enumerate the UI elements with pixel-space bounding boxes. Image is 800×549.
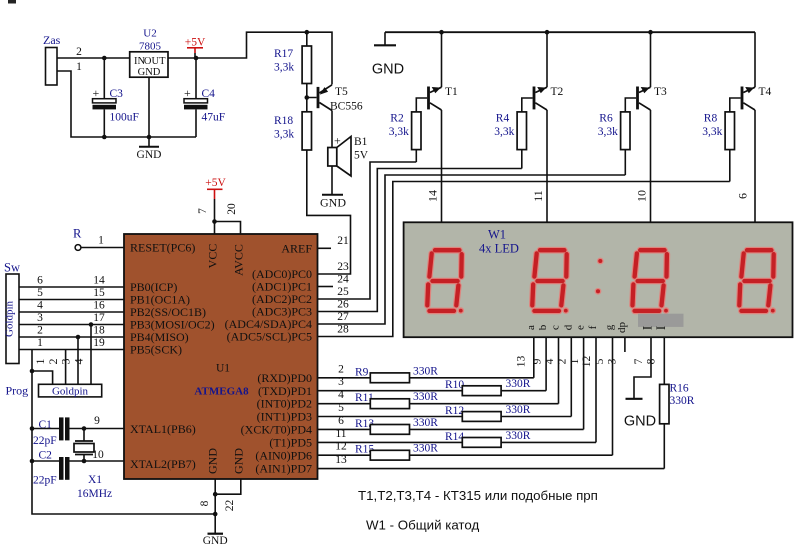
svg-text:R: R xyxy=(73,227,82,241)
transistor T3 collector xyxy=(639,103,651,110)
svg-text:Zas: Zas xyxy=(43,33,61,47)
svg-text:dp: dp xyxy=(616,322,628,334)
transistor T4 base bar xyxy=(741,87,744,110)
wire Sw pin 6 to MCU pin 14 xyxy=(19,286,124,288)
svg-text:1: 1 xyxy=(76,61,82,73)
svg-text:+5V: +5V xyxy=(185,37,206,49)
transistor T5 emitter with arrow xyxy=(319,85,332,93)
svg-text:3,3k: 3,3k xyxy=(274,62,294,74)
resistor R15 xyxy=(370,450,409,460)
svg-text:24: 24 xyxy=(337,274,349,286)
svg-text:X1: X1 xyxy=(88,474,102,486)
wire Prog pin2 to SCK net xyxy=(65,350,67,385)
wire Sw pin 5 to MCU pin 15 xyxy=(19,299,124,301)
svg-text:12: 12 xyxy=(335,441,347,453)
svg-text:16: 16 xyxy=(93,300,105,312)
svg-text:GND: GND xyxy=(137,149,162,161)
svg-text:6: 6 xyxy=(736,193,750,199)
svg-text:22pF: 22pF xyxy=(33,475,57,487)
svg-text:330R: 330R xyxy=(506,378,531,390)
wire R12 to display pin xyxy=(501,416,571,418)
wire MCU pin 5 to R12 xyxy=(318,416,463,418)
svg-text:330R: 330R xyxy=(506,430,531,442)
svg-text:(T1)PD5: (T1)PD5 xyxy=(269,436,312,450)
wire T2 base net to MCU pin 26 xyxy=(318,169,522,312)
capacitor C1 xyxy=(59,417,64,440)
svg-text:12: 12 xyxy=(581,356,593,368)
svg-text:13: 13 xyxy=(335,454,347,466)
svg-text:3,3k: 3,3k xyxy=(274,129,294,141)
svg-text:4x LED: 4x LED xyxy=(479,242,519,256)
svg-text:9: 9 xyxy=(532,358,544,364)
wire T3 base net to MCU pin 27 xyxy=(318,175,626,324)
svg-text:7: 7 xyxy=(633,358,645,364)
transistor T1 base bar xyxy=(427,87,430,110)
transistor T4 collector xyxy=(743,103,755,110)
svg-text:330R: 330R xyxy=(413,391,438,403)
svg-text:5: 5 xyxy=(37,287,43,299)
svg-text:14: 14 xyxy=(93,275,105,287)
wire T4 base xyxy=(730,98,741,112)
resistor R8 xyxy=(725,112,734,150)
svg-text:B1: B1 xyxy=(354,136,368,148)
svg-text:22: 22 xyxy=(224,500,236,512)
wire R18 bottom to MCU pin 23 net xyxy=(307,150,351,274)
crystal X1 xyxy=(83,429,85,442)
ground symbol top right xyxy=(384,32,386,45)
svg-text:OUT: OUT xyxy=(144,56,166,67)
svg-text:19: 19 xyxy=(93,337,105,349)
wire R14 to display pin xyxy=(501,441,596,443)
svg-text:1: 1 xyxy=(98,235,104,247)
wire T4 base net to MCU pin 28 xyxy=(318,182,730,337)
svg-text:Sw: Sw xyxy=(4,261,20,275)
wire Prog pin3 to MISO net xyxy=(77,337,79,384)
svg-text:7: 7 xyxy=(197,208,209,214)
node T5 base xyxy=(305,95,310,100)
svg-text:g: g xyxy=(604,324,616,330)
svg-text:22pF: 22pF xyxy=(33,435,57,447)
resistor R4 xyxy=(517,112,526,150)
wire display pin 9 (segment) xyxy=(545,337,547,391)
wire C1 to XTAL1 pin 9 xyxy=(70,428,125,430)
resistor R13 xyxy=(370,425,409,435)
svg-text:Goldpin: Goldpin xyxy=(52,386,89,398)
wire R10 to display pin xyxy=(501,390,546,392)
transistor T1 collector xyxy=(430,103,442,110)
wire Sw pin 3 to MCU pin 17 xyxy=(19,324,124,326)
wire R16 to MCU pin 13 net xyxy=(663,424,665,469)
node rail C2 xyxy=(30,459,35,464)
svg-text:2: 2 xyxy=(557,358,569,364)
wire +5V to VCC pin 7 xyxy=(214,199,216,234)
svg-text:3: 3 xyxy=(59,359,73,365)
wire display pin 2 (segment) xyxy=(570,337,572,416)
node Prog ground junction xyxy=(30,369,35,374)
node R17 top xyxy=(305,30,310,35)
svg-text:Prog: Prog xyxy=(6,384,29,398)
svg-text:8: 8 xyxy=(646,358,658,364)
display digit 3 (8.) xyxy=(633,250,669,313)
svg-text:VCC: VCC xyxy=(206,244,220,269)
svg-text:27: 27 xyxy=(337,311,349,323)
svg-text:4: 4 xyxy=(37,300,43,312)
svg-text:I: I xyxy=(653,326,668,330)
wire rail to T4 emitter xyxy=(754,32,756,87)
svg-text:330R: 330R xyxy=(506,404,531,416)
connector Sw goldpin xyxy=(6,274,19,364)
wire C3 bottom xyxy=(103,109,105,137)
svg-text:T2: T2 xyxy=(551,86,564,98)
svg-text:3,3k: 3,3k xyxy=(702,126,722,138)
svg-text:14: 14 xyxy=(426,190,440,202)
transistor T1 emitter with arrow xyxy=(430,87,442,92)
wire Sw pin 2 to MCU pin 18 xyxy=(19,336,124,338)
svg-text:AVCC: AVCC xyxy=(232,244,246,276)
transistor T2 collector xyxy=(535,103,547,110)
resistor R11 xyxy=(370,399,409,409)
svg-text:GND: GND xyxy=(203,535,228,547)
svg-text:R8: R8 xyxy=(704,113,718,125)
svg-text:W1: W1 xyxy=(488,228,506,242)
svg-text:R17: R17 xyxy=(274,48,293,60)
wire R8 to MCU net xyxy=(729,150,731,182)
node +5V at C4 xyxy=(194,56,199,61)
resistor R12 xyxy=(462,412,501,422)
wire rail to C2 xyxy=(32,460,59,462)
svg-text:T1,T2,T3,T4 - КТ315 или подобн: T1,T2,T3,T4 - КТ315 или подобные прп xyxy=(358,488,598,503)
wire MCU pin 3 to R10 xyxy=(318,390,463,392)
svg-text:(AIN0)PD6: (AIN0)PD6 xyxy=(255,449,312,463)
svg-text:d: d xyxy=(562,324,574,330)
svg-text:1: 1 xyxy=(37,337,43,349)
resistor R10 xyxy=(462,386,501,396)
wire R to RESET pin 1 xyxy=(81,247,124,249)
svg-text:+: + xyxy=(93,86,100,100)
svg-text:4: 4 xyxy=(338,389,344,401)
node VCC AVCC xyxy=(212,219,217,224)
svg-text:13: 13 xyxy=(516,356,528,368)
wire B1 to ground xyxy=(331,166,333,195)
resistor R2 xyxy=(412,112,421,150)
wire R17 bottom to T5 base xyxy=(307,84,317,98)
wire R11 to display pin xyxy=(410,403,559,405)
ground symbol under B1 xyxy=(322,194,343,196)
wire MCU pin 12 to R15 xyxy=(318,454,371,456)
wire rail to T3 emitter xyxy=(650,32,652,87)
display highlight rectangle xyxy=(638,314,684,327)
node MISO junction xyxy=(76,335,81,340)
svg-text:5: 5 xyxy=(338,402,344,414)
svg-text:(AIN1)PD7: (AIN1)PD7 xyxy=(255,461,312,475)
svg-text:3: 3 xyxy=(37,312,43,324)
wire display pin 12 (segment) xyxy=(595,337,597,442)
connector Prog goldpin xyxy=(39,384,102,397)
svg-text:GND: GND xyxy=(138,67,161,78)
svg-text:(RXD)PD0: (RXD)PD0 xyxy=(257,371,312,385)
wire T3 collector to display xyxy=(650,110,652,222)
transistor T3 base bar xyxy=(636,87,639,110)
resistor R9 xyxy=(370,373,409,383)
svg-text:e: e xyxy=(575,325,587,330)
wire C3 top xyxy=(103,58,105,99)
svg-text:(ADC5/SCL)PC5: (ADC5/SCL)PC5 xyxy=(227,330,312,344)
display W1 body xyxy=(404,222,793,337)
wire Sw pin 1 to MCU pin 19 xyxy=(19,349,124,351)
transistor T4 emitter with arrow xyxy=(743,87,755,92)
wire display pin 7 to ground xyxy=(634,337,651,398)
svg-text:R6: R6 xyxy=(599,113,613,125)
svg-text:C2: C2 xyxy=(39,450,53,462)
svg-text:330R: 330R xyxy=(413,443,438,455)
connector Zas xyxy=(46,48,58,86)
svg-text:U2: U2 xyxy=(143,28,156,40)
capacitor C4 xyxy=(184,99,208,103)
svg-text:26: 26 xyxy=(337,299,349,311)
svg-text:R2: R2 xyxy=(390,113,404,125)
svg-text:RESET(PC6): RESET(PC6) xyxy=(130,241,195,255)
svg-text:+: + xyxy=(184,86,191,100)
ground symbol at display pin 7 xyxy=(626,398,643,400)
wire display pin 1 (segment) xyxy=(583,337,585,429)
wire R13 to display pin xyxy=(410,428,584,430)
wire T4 collector to display xyxy=(754,110,756,222)
svg-text:R9: R9 xyxy=(355,366,369,378)
transistor T2 emitter with arrow xyxy=(535,87,547,92)
svg-text:4: 4 xyxy=(544,358,556,364)
wire MCU pin 2 to R9 xyxy=(318,377,371,379)
svg-text:GND: GND xyxy=(232,448,246,474)
svg-text:330R: 330R xyxy=(413,365,438,377)
node rail T2 xyxy=(545,30,550,35)
resistor R18 xyxy=(302,112,311,150)
svg-text:(INT1)PD3: (INT1)PD3 xyxy=(257,410,312,424)
svg-text:GND: GND xyxy=(206,448,220,474)
svg-text:3,3k: 3,3k xyxy=(598,126,618,138)
wire MCU pin 6 to R13 xyxy=(318,428,371,430)
wire display pin 8 to R16 xyxy=(663,337,665,384)
resistor R14 xyxy=(462,438,501,448)
wire MCU pin 13 to R16 xyxy=(318,468,665,470)
svg-text:(TXD)PD1: (TXD)PD1 xyxy=(258,384,312,398)
wire emitter ground rail xyxy=(385,31,755,33)
node pin8 pin22 junction xyxy=(213,492,218,497)
svg-text:2: 2 xyxy=(76,46,82,58)
wire MCU pin 11 to R14 xyxy=(318,441,463,443)
svg-text:ATMEGA8: ATMEGA8 xyxy=(194,386,249,398)
wire R4 to MCU net xyxy=(521,150,523,169)
wire R2 to MCU net xyxy=(415,150,417,162)
wire display pin 5 (segment) xyxy=(612,337,614,455)
wire T5 collector to buzzer xyxy=(331,111,333,148)
buzzer B1 xyxy=(328,148,337,167)
svg-text:T3: T3 xyxy=(654,86,667,98)
wire rail to T1 emitter xyxy=(441,32,443,87)
svg-text:47uF: 47uF xyxy=(202,112,226,124)
svg-text:GND: GND xyxy=(624,414,656,430)
wire rail to T2 emitter xyxy=(546,32,548,87)
svg-text:7805: 7805 xyxy=(139,41,162,53)
svg-text:XTAL1(PB6): XTAL1(PB6) xyxy=(130,422,196,436)
svg-text:6: 6 xyxy=(37,275,43,287)
svg-text:330R: 330R xyxy=(670,395,695,407)
svg-text:330R: 330R xyxy=(413,417,438,429)
wire T1 base xyxy=(416,98,427,112)
resistor R17 xyxy=(302,46,311,84)
transistor T2 base bar xyxy=(533,87,536,110)
display colon upper dot xyxy=(598,258,603,263)
svg-text:3,3k: 3,3k xyxy=(494,126,514,138)
node rail C1 xyxy=(30,426,35,431)
svg-text:100uF: 100uF xyxy=(110,112,139,124)
svg-text:18: 18 xyxy=(93,325,105,337)
node XTAL2 junction xyxy=(82,459,87,464)
wire Zas pin1 to ground rail xyxy=(57,71,196,137)
svg-text:17: 17 xyxy=(93,312,105,324)
wire R18 top xyxy=(306,98,308,112)
display colon lower dot xyxy=(595,289,600,294)
svg-text:AREF: AREF xyxy=(281,241,312,255)
svg-text:8: 8 xyxy=(199,500,211,506)
svg-text:10: 10 xyxy=(635,190,649,202)
wire R17 top xyxy=(306,32,308,46)
svg-text:5V: 5V xyxy=(354,150,369,162)
node C3 top xyxy=(102,56,107,61)
wire display pin 3 stub (dp) xyxy=(624,337,626,352)
svg-text:+5V: +5V xyxy=(205,177,226,189)
ground symbol under 7805 xyxy=(148,77,150,146)
svg-text:2: 2 xyxy=(338,363,344,375)
svg-text:R18: R18 xyxy=(274,115,293,127)
svg-text:T4: T4 xyxy=(759,86,772,98)
corner artifact mark xyxy=(8,0,16,4)
wire to AVCC pin 20 xyxy=(215,222,241,235)
svg-text:XTAL2(PB7): XTAL2(PB7) xyxy=(130,457,196,471)
svg-text:c: c xyxy=(550,325,562,330)
svg-text:W1 - Общий катод: W1 - Общий катод xyxy=(366,518,479,533)
wire C4 top xyxy=(195,58,197,99)
svg-text:T1: T1 xyxy=(445,86,458,98)
terminal R xyxy=(75,245,81,251)
svg-text:5: 5 xyxy=(594,358,606,364)
wire MCU pin 8 to ground xyxy=(214,479,216,534)
display digit 1 (8.) xyxy=(427,250,463,313)
wire Prog pin4 to MOSI net xyxy=(90,325,92,385)
svg-text:23: 23 xyxy=(337,261,349,273)
svg-text:1: 1 xyxy=(33,359,47,365)
display digit 2 (8.) xyxy=(532,250,568,313)
svg-text:6: 6 xyxy=(338,415,344,427)
svg-text:T5: T5 xyxy=(335,86,348,98)
wire T3 base xyxy=(625,98,636,112)
wire Zas pin2 to 7805 IN xyxy=(57,57,130,59)
svg-text:21: 21 xyxy=(337,235,349,247)
svg-text:PB5(SCK): PB5(SCK) xyxy=(130,343,182,357)
svg-text:a: a xyxy=(525,325,537,330)
wire PC1 pin 24 stub xyxy=(318,286,334,288)
wire R9 to display pin xyxy=(410,377,534,379)
resistor R6 xyxy=(621,112,630,150)
svg-text:Goldpin: Goldpin xyxy=(4,300,16,337)
svg-text:3,3k: 3,3k xyxy=(389,126,409,138)
svg-text:BC556: BC556 xyxy=(330,101,363,113)
node C3 bottom xyxy=(102,135,107,140)
wire Sw pin 4 to MCU pin 16 xyxy=(19,311,124,313)
wire T2 collector to display xyxy=(546,110,548,222)
node MOSI junction xyxy=(89,322,94,327)
node 7805 GND xyxy=(147,135,152,140)
wire C4 bottom xyxy=(195,109,197,137)
svg-text:b: b xyxy=(537,324,549,330)
svg-text:25: 25 xyxy=(337,286,349,298)
node XTAL1 junction xyxy=(82,426,87,431)
regulator U2 7805 xyxy=(130,52,168,77)
node rail T1 xyxy=(439,30,444,35)
svg-text:(INT0)PD2: (INT0)PD2 xyxy=(257,397,312,411)
wire display pin 13 (segment) xyxy=(533,337,535,378)
transistor T3 emitter with arrow xyxy=(639,87,651,92)
svg-text:10: 10 xyxy=(92,449,104,461)
transistor T5 base bar xyxy=(317,87,320,108)
wire left ground rail xyxy=(32,371,215,514)
svg-text:4: 4 xyxy=(72,359,86,365)
svg-text:2: 2 xyxy=(37,325,43,337)
IC U1 ATMEGA8 body xyxy=(124,234,318,479)
svg-text:f: f xyxy=(587,325,599,329)
svg-text:9: 9 xyxy=(94,415,100,427)
wire AREF pin 21 stub xyxy=(318,247,332,249)
wire R6 to MCU net xyxy=(624,150,626,175)
svg-text:16MHz: 16MHz xyxy=(77,488,112,500)
svg-text:3: 3 xyxy=(607,358,619,364)
wire MCU pin 4 to R11 xyxy=(318,403,371,405)
capacitor C3 xyxy=(93,99,117,103)
svg-text:11: 11 xyxy=(531,190,545,202)
wire R15 to display pin xyxy=(410,454,613,456)
svg-text:U1: U1 xyxy=(216,363,230,375)
wire display pin 4 (segment) xyxy=(558,337,560,404)
wire T2 base xyxy=(522,98,533,112)
wire C2 to XTAL2 pin 10 xyxy=(70,460,125,462)
svg-text:(XCK/T0)PD4: (XCK/T0)PD4 xyxy=(241,423,312,437)
node ground rail junction xyxy=(213,512,218,517)
svg-text:R4: R4 xyxy=(496,113,510,125)
svg-text:15: 15 xyxy=(93,287,105,299)
svg-text:3: 3 xyxy=(338,376,344,388)
svg-text:GND: GND xyxy=(320,196,346,210)
svg-text:1: 1 xyxy=(569,358,581,364)
svg-text:GND: GND xyxy=(372,62,404,78)
wire MCU pin 22 to ground xyxy=(215,479,241,494)
svg-text:28: 28 xyxy=(337,324,349,336)
transistor T5 collector xyxy=(319,103,332,111)
capacitor C2 xyxy=(59,457,64,480)
wire rail to C1 xyxy=(32,428,59,430)
svg-text:11: 11 xyxy=(335,428,346,440)
svg-text:R16: R16 xyxy=(670,383,689,395)
wire 7805 OUT to +5V rail and T5 emitter xyxy=(168,32,332,84)
svg-text:20: 20 xyxy=(226,203,238,215)
display digit 4 (8.) xyxy=(739,250,775,313)
wire T1 base net to MCU pin 25 xyxy=(318,162,417,299)
wire Sw pin1 branch to Prog pin1 and ground rail xyxy=(32,350,53,385)
resistor R16 xyxy=(660,384,669,423)
ground symbol under MCU xyxy=(208,533,224,535)
node rail T3 xyxy=(648,30,653,35)
wire T1 collector to display xyxy=(441,110,443,222)
